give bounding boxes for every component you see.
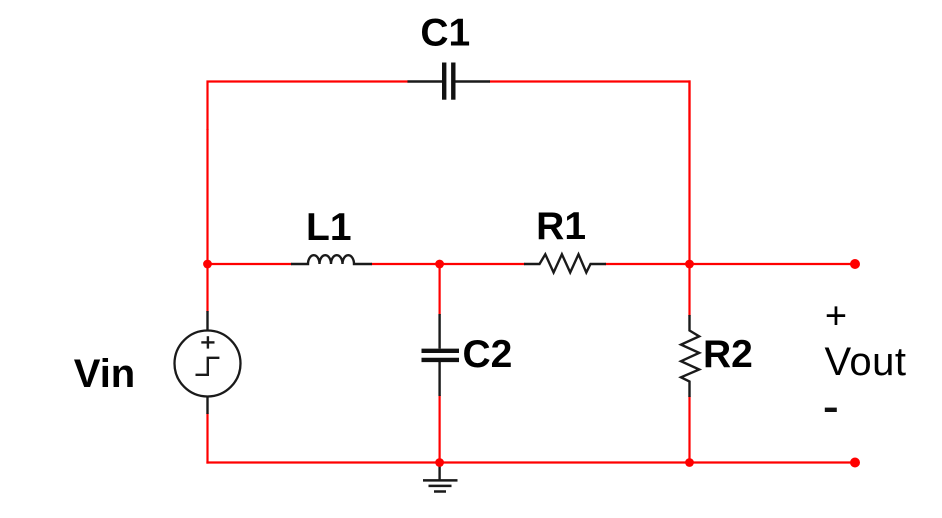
- wire C2 branch lower: [439, 395, 441, 461]
- svg-text:Vout: Vout: [824, 340, 906, 384]
- wire bottom row: [206, 461, 855, 463]
- svg-text:+: +: [825, 296, 847, 338]
- voltage source U Vin (step source): [175, 331, 241, 397]
- wire left vertical upper: [206, 129, 208, 312]
- junction node L1-C2: [435, 260, 444, 269]
- capacitor C1: [408, 63, 491, 100]
- wire top right red segment: [490, 82, 690, 131]
- junction node at Vin top / middle row: [203, 260, 212, 269]
- wire right vertical upper: [688, 80, 690, 316]
- svg-text:C1: C1: [420, 12, 470, 55]
- capacitor C2: [422, 314, 460, 396]
- wire middle row segment C to output: [605, 263, 855, 265]
- inductor L1: [291, 255, 372, 264]
- svg-text:R1: R1: [536, 205, 586, 248]
- wire middle row segment A: [206, 263, 292, 265]
- wire middle row segment B: [371, 263, 525, 265]
- wire right vertical lower: [688, 396, 690, 464]
- label minus sign: [825, 408, 837, 412]
- terminal node Vout+: [850, 259, 860, 269]
- wire left vertical lower: [206, 413, 208, 464]
- svg-text:Vin: Vin: [74, 352, 136, 396]
- wire C2 branch upper: [439, 263, 441, 315]
- ground: [423, 463, 458, 492]
- svg-text:C2: C2: [463, 333, 513, 376]
- junction node R1-R2-C1: [685, 260, 694, 269]
- junction node C2-ground: [435, 458, 444, 467]
- wire top left red segment: [208, 82, 409, 131]
- svg-text:L1: L1: [306, 206, 352, 249]
- svg-text:R2: R2: [703, 333, 753, 376]
- voltage source Vin lead bottom: [206, 396, 208, 414]
- junction node R2 bottom: [685, 458, 694, 467]
- terminal node Vout-: [850, 458, 860, 468]
- voltage source Vin lead top: [206, 311, 208, 331]
- resistor R2: [681, 315, 699, 397]
- resistor R1: [524, 254, 606, 272]
